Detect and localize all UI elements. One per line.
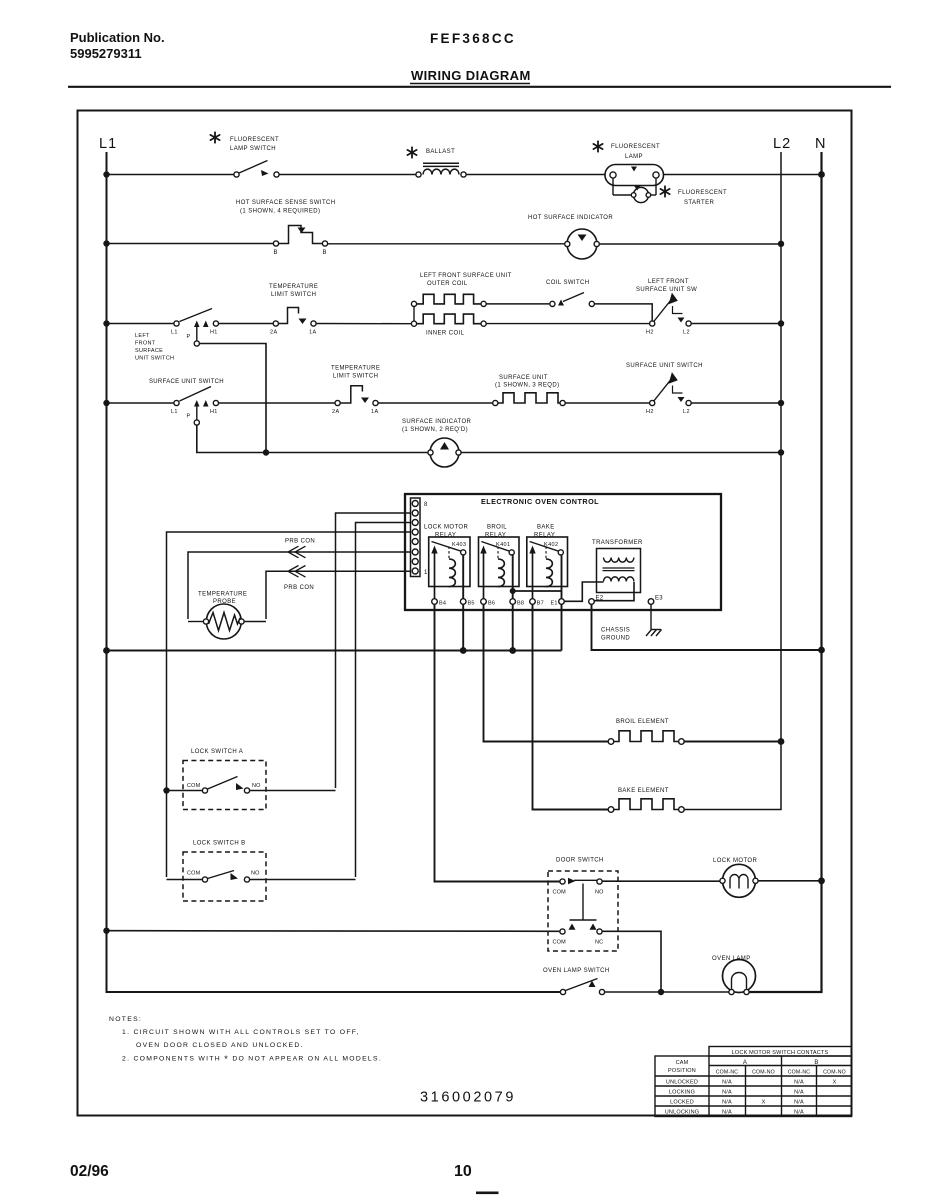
wire lamp switch to oven lamp xyxy=(605,991,729,993)
junction L2 row3 xyxy=(778,320,784,326)
svg-text:LOCKING: LOCKING xyxy=(669,1090,695,1096)
wire row4 H1 to temp limit xyxy=(219,402,336,404)
inner coil element xyxy=(417,314,487,326)
svg-text:B7: B7 xyxy=(537,601,544,607)
svg-text:(1 SHOWN, 4 REQUIRED): (1 SHOWN, 4 REQUIRED) xyxy=(240,209,320,215)
svg-text:B: B xyxy=(323,250,327,256)
svg-text:K403: K403 xyxy=(452,542,466,548)
svg-text:TEMPERATURE: TEMPERATURE xyxy=(331,366,380,372)
wire row3 to L2 xyxy=(691,323,781,325)
wire row1 L1 to lamp switch xyxy=(107,174,235,176)
svg-text:N/A: N/A xyxy=(722,1090,732,1096)
fluorescent lamp label xyxy=(0,0,1,1)
svg-text:SURFACE UNIT: SURFACE UNIT xyxy=(499,375,548,381)
svg-text:FEF368CC: FEF368CC xyxy=(430,31,516,46)
hot surface sense switch xyxy=(273,226,327,247)
wire door NO to lock motor xyxy=(602,880,720,882)
surface indicator labels xyxy=(402,419,472,433)
coil switch xyxy=(550,293,595,307)
door switch pole 2 xyxy=(560,924,602,935)
svg-text:L2: L2 xyxy=(683,409,690,415)
connector strip P1 xyxy=(411,498,421,577)
node L1 label xyxy=(99,136,117,152)
svg-text:N/A: N/A xyxy=(794,1090,804,1096)
svg-text:2A: 2A xyxy=(270,330,278,336)
wire B4 down to door switch xyxy=(435,604,560,881)
svg-text:RELAY: RELAY xyxy=(534,533,555,539)
svg-text:BROIL ELEMENT: BROIL ELEMENT xyxy=(616,719,669,725)
svg-text:K402: K402 xyxy=(544,542,558,548)
PRB CON chevrons upper xyxy=(288,546,306,558)
door switch terminal labels xyxy=(553,890,605,946)
svg-text:LEFT: LEFT xyxy=(135,333,150,339)
svg-text:PRB CON: PRB CON xyxy=(285,539,315,545)
svg-text:FRONT: FRONT xyxy=(135,341,156,347)
svg-text:POSITION: POSITION xyxy=(668,1068,696,1074)
svg-text:L1: L1 xyxy=(99,136,117,152)
wire lamp switch to ballast xyxy=(279,174,416,176)
wire B8 to E1 link xyxy=(513,590,562,592)
svg-text:ELECTRONIC OVEN CONTROL: ELECTRONIC OVEN CONTROL xyxy=(481,497,599,506)
broil element xyxy=(608,731,684,745)
fluorescent lamp xyxy=(605,165,664,186)
temperature limit switch row3 labels xyxy=(269,284,318,336)
lock switch A xyxy=(167,777,336,794)
svg-text:OVEN LAMP SWITCH: OVEN LAMP SWITCH xyxy=(543,968,610,974)
svg-text:10: 10 xyxy=(454,1163,472,1180)
wire N bus vertical xyxy=(749,152,821,992)
wire row2 L1 to sense switch xyxy=(107,243,274,245)
svg-text:NO: NO xyxy=(595,890,604,896)
wire B8 down to main line xyxy=(512,604,514,650)
coil labels xyxy=(420,273,512,337)
svg-text:HOT SURFACE SENSE SWITCH: HOT SURFACE SENSE SWITCH xyxy=(236,200,336,206)
wire L2 bus vertical xyxy=(780,152,782,742)
wire E1 to transformer primary xyxy=(564,582,603,601)
junction L1 row2 xyxy=(103,240,109,246)
wire row4 to L2 xyxy=(691,402,781,404)
chassis ground E3 xyxy=(646,604,662,636)
surface unit switch (right) labels xyxy=(626,363,703,415)
node L2 label xyxy=(773,136,791,152)
svg-text:02/96: 02/96 xyxy=(70,1163,109,1180)
svg-text:UNLOCKED: UNLOCKED xyxy=(666,1080,698,1086)
wire E2 to transformer primary right xyxy=(594,582,634,601)
svg-text:TRANSFORMER: TRANSFORMER xyxy=(592,540,643,546)
svg-text:COM: COM xyxy=(553,890,567,896)
wire lamp to N xyxy=(664,174,822,176)
svg-text:2A: 2A xyxy=(332,409,340,415)
wire L2 to bake element xyxy=(684,742,781,810)
svg-text:2. COMPONENTS WITH * DO NOT AP: 2. COMPONENTS WITH * DO NOT APPEAR ON AL… xyxy=(122,1054,382,1065)
temperature limit switch row4 labels xyxy=(331,366,380,416)
fluorescent lamp switch xyxy=(234,161,279,178)
svg-text:FLUORESCENT: FLUORESCENT xyxy=(611,144,660,150)
lock switch B label xyxy=(193,841,246,847)
junction N row1 xyxy=(818,171,825,178)
wire indicator to L2 xyxy=(599,243,781,245)
svg-text:BROIL: BROIL xyxy=(487,525,507,531)
svg-text:OVEN DOOR CLOSED AND UNLOCKED.: OVEN DOOR CLOSED AND UNLOCKED. xyxy=(136,1042,304,1049)
surface unit switch labels xyxy=(149,379,224,420)
bottom registration mark xyxy=(476,1192,499,1195)
wire B7 down to bake element xyxy=(533,604,609,809)
junction lock A COM xyxy=(163,787,169,793)
broil relay labels xyxy=(485,525,510,549)
electronic oven control title xyxy=(481,497,599,506)
temperature probe labels xyxy=(198,592,247,606)
wire surface unit to H2 xyxy=(565,402,649,404)
svg-text:E3: E3 xyxy=(655,596,663,602)
svg-text:A: A xyxy=(743,1060,747,1066)
svg-text:B: B xyxy=(814,1060,818,1066)
svg-text:L2: L2 xyxy=(683,330,690,336)
wire sense switch to indicator xyxy=(328,243,565,245)
svg-text:N/A: N/A xyxy=(722,1100,732,1106)
wire ballast to fluorescent lamp xyxy=(466,174,605,176)
svg-text:LOCKED: LOCKED xyxy=(670,1100,694,1106)
svg-text:COM: COM xyxy=(553,940,567,946)
svg-text:LAMP SWITCH: LAMP SWITCH xyxy=(230,146,276,152)
svg-text:N/A: N/A xyxy=(794,1110,804,1116)
junction L1 main line xyxy=(103,647,110,654)
bake element label xyxy=(618,788,669,794)
svg-text:INNER COIL: INNER COIL xyxy=(426,331,465,337)
svg-text:STARTER: STARTER xyxy=(684,200,715,206)
svg-text:1. CIRCUIT SHOWN WITH ALL CONT: 1. CIRCUIT SHOWN WITH ALL CONTROLS SET T… xyxy=(122,1029,360,1036)
surface unit element xyxy=(493,393,566,406)
oven lamp switch xyxy=(560,979,604,995)
svg-text:LOCK SWITCH A: LOCK SWITCH A xyxy=(191,749,243,755)
temperature probe xyxy=(188,604,266,639)
lock motor label xyxy=(713,858,757,864)
lock switch B xyxy=(167,871,356,883)
door switch box xyxy=(548,871,618,951)
surface unit switch (right) xyxy=(650,372,692,406)
wire row3 H1 to temp limit xyxy=(219,323,274,325)
lock switch B terminal labels xyxy=(187,871,260,877)
svg-text:5995279311: 5995279311 xyxy=(70,46,142,61)
coil branch node xyxy=(411,301,416,326)
temperature limit switch row4 xyxy=(335,386,378,406)
svg-text:BAKE ELEMENT: BAKE ELEMENT xyxy=(618,788,669,794)
svg-text:N/A: N/A xyxy=(794,1080,804,1086)
svg-text:COM: COM xyxy=(187,783,201,789)
svg-text:X: X xyxy=(762,1100,766,1106)
surface unit switch (left) xyxy=(174,387,219,426)
door switch pole 1 xyxy=(560,878,602,885)
svg-text:GROUND: GROUND xyxy=(601,636,630,642)
junction L2 row4 xyxy=(778,400,784,406)
notes xyxy=(109,1016,382,1065)
svg-text:B5: B5 xyxy=(468,601,475,607)
oven lamp xyxy=(723,960,756,995)
svg-text:B: B xyxy=(274,250,278,256)
outer frame xyxy=(78,111,852,1116)
EOC terminals row xyxy=(432,599,654,605)
svg-text:COM: COM xyxy=(187,871,201,877)
svg-text:COIL SWITCH: COIL SWITCH xyxy=(546,280,590,286)
svg-text:COM-NC: COM-NC xyxy=(788,1070,811,1076)
svg-text:B8: B8 xyxy=(517,601,524,607)
svg-text:WIRING DIAGRAM: WIRING DIAGRAM xyxy=(411,68,531,83)
lock motor xyxy=(720,864,758,897)
junction L1 row1 xyxy=(103,171,109,177)
svg-text:P: P xyxy=(187,414,191,420)
svg-text:(1 SHOWN, 3 REQD): (1 SHOWN, 3 REQD) xyxy=(495,383,559,389)
fluorescent starter xyxy=(613,178,656,202)
wire coil switch to H2 drop xyxy=(594,304,652,321)
junction L1 row3 xyxy=(103,320,109,326)
junction lamp row xyxy=(658,989,664,995)
PRB CON label upper xyxy=(285,539,315,545)
door switch label xyxy=(556,858,604,864)
svg-text:DOOR SWITCH: DOOR SWITCH xyxy=(556,858,604,864)
wire lock motor to N xyxy=(758,880,821,882)
wire row3 1A to coil branch xyxy=(316,323,411,325)
transformer T1 xyxy=(597,549,641,593)
hot surface indicator label xyxy=(528,215,613,221)
svg-text:SURFACE UNIT SWITCH: SURFACE UNIT SWITCH xyxy=(626,363,703,369)
svg-text:(1 SHOWN, 2 REQ'D): (1 SHOWN, 2 REQ'D) xyxy=(402,427,468,433)
lock motor relay labels xyxy=(424,525,468,549)
PRB CON chevrons lower xyxy=(288,566,306,578)
electronic oven control box xyxy=(405,494,721,610)
wire row3 P to drop xyxy=(199,344,266,451)
lock motor relay K403 xyxy=(429,537,470,602)
svg-text:B6: B6 xyxy=(488,601,495,607)
svg-text:TEMPERATURE: TEMPERATURE xyxy=(269,284,318,290)
svg-text:UNLOCKING: UNLOCKING xyxy=(665,1110,700,1116)
svg-text:BALLAST: BALLAST xyxy=(426,149,455,155)
svg-text:OUTER COIL: OUTER COIL xyxy=(427,281,468,287)
lock switch A terminal labels xyxy=(187,783,261,789)
svg-text:K401: K401 xyxy=(496,542,510,548)
title underline xyxy=(410,83,530,85)
fluorescent starter label xyxy=(0,0,1,1)
svg-text:FLUORESCENT: FLUORESCENT xyxy=(230,137,279,143)
junction B8 link xyxy=(510,588,516,594)
PRB CON label lower xyxy=(284,585,314,591)
svg-text:H1: H1 xyxy=(210,409,218,415)
wire inner coil to H2 xyxy=(486,323,649,325)
wire B6 down to broil element xyxy=(484,604,609,741)
oven lamp switch label xyxy=(543,968,610,974)
wire L1 bus vertical xyxy=(107,152,561,992)
svg-text:E1: E1 xyxy=(551,601,558,607)
broil element label xyxy=(616,719,669,725)
chassis ground label xyxy=(601,628,630,642)
wire pin3 to probe left (PRB CON) xyxy=(188,552,411,619)
svg-text:H1: H1 xyxy=(210,330,218,336)
svg-text:H2: H2 xyxy=(646,330,654,336)
svg-text:SURFACE: SURFACE xyxy=(135,348,163,354)
svg-text:RELAY: RELAY xyxy=(435,533,456,539)
junction L2 row2 xyxy=(778,241,784,247)
svg-text:N/A: N/A xyxy=(722,1110,732,1116)
junction L2 broil xyxy=(778,738,785,745)
left front surface unit switch xyxy=(174,309,219,347)
svg-text:LOCK MOTOR SWITCH CONTACTS: LOCK MOTOR SWITCH CONTACTS xyxy=(732,1050,829,1056)
oven lamp label xyxy=(712,956,751,962)
svg-text:SURFACE INDICATOR: SURFACE INDICATOR xyxy=(402,419,472,425)
outer coil element xyxy=(417,294,487,306)
transformer label xyxy=(592,540,643,546)
svg-text:LEFT FRONT SURFACE UNIT: LEFT FRONT SURFACE UNIT xyxy=(420,273,512,279)
svg-text:N/A: N/A xyxy=(722,1080,732,1086)
EOC terminal labels xyxy=(439,596,663,607)
svg-text:NC: NC xyxy=(595,940,603,946)
wire pin1 to probe right (PRB CON) xyxy=(266,571,411,619)
svg-text:UNIT SWITCH: UNIT SWITCH xyxy=(135,356,174,362)
wire outer coil to coil switch xyxy=(486,303,550,305)
svg-text:LIMIT SWITCH: LIMIT SWITCH xyxy=(271,292,316,298)
svg-text:N/A: N/A xyxy=(794,1100,804,1106)
junction L1 row4 xyxy=(103,400,109,406)
door switch link xyxy=(570,884,597,921)
main L1 line xyxy=(107,649,562,651)
ballast L1 (coil) xyxy=(416,163,466,177)
svg-text:CHASSIS: CHASSIS xyxy=(601,628,630,634)
wire L1 to door COM pole2 xyxy=(107,930,560,933)
wire E1 down to main line xyxy=(561,604,563,650)
node N label xyxy=(815,136,825,152)
left front surface unit sw (right) xyxy=(650,293,692,327)
svg-text:NO: NO xyxy=(252,783,261,789)
svg-text:PROBE: PROBE xyxy=(213,599,236,605)
bake relay K402 xyxy=(527,537,568,602)
svg-text:SURFACE UNIT SWITCH: SURFACE UNIT SWITCH xyxy=(149,379,224,385)
svg-text:316002079: 316002079 xyxy=(420,1090,516,1106)
svg-text:1: 1 xyxy=(424,570,428,576)
svg-text:P: P xyxy=(187,334,191,340)
svg-text:NOTES:: NOTES: xyxy=(109,1016,142,1023)
surface unit element labels xyxy=(495,375,559,389)
connector pin labels xyxy=(424,502,428,576)
wire door NC down to lamp row xyxy=(602,931,661,992)
svg-text:RELAY: RELAY xyxy=(485,533,506,539)
table text xyxy=(665,1050,846,1116)
junction L2 indicator row xyxy=(778,449,784,455)
svg-text:Publication No.: Publication No. xyxy=(70,30,165,45)
svg-text:CAM: CAM xyxy=(676,1060,689,1066)
wire pin6 to lock switch B NO xyxy=(356,523,411,878)
svg-text:L2: L2 xyxy=(773,136,791,152)
wire pin7 to lock switch A NO xyxy=(336,513,411,788)
wire B5 down to main line xyxy=(462,604,464,650)
temperature limit switch row3 xyxy=(273,308,316,327)
svg-text:L1: L1 xyxy=(171,409,178,415)
part number xyxy=(420,1090,516,1106)
svg-text:PRB CON: PRB CON xyxy=(284,585,314,591)
svg-text:H2: H2 xyxy=(646,409,654,415)
junction indicator row xyxy=(263,449,269,455)
sense switch labels xyxy=(236,200,336,256)
svg-text:COM-NC: COM-NC xyxy=(716,1070,739,1076)
svg-text:N: N xyxy=(815,136,825,152)
svg-text:LIMIT SWITCH: LIMIT SWITCH xyxy=(333,374,378,380)
wire E2 down to N line xyxy=(592,604,822,650)
svg-text:1A: 1A xyxy=(371,409,379,415)
svg-text:LOCK MOTOR: LOCK MOTOR xyxy=(424,525,468,531)
svg-text:COM-NO: COM-NO xyxy=(823,1070,846,1076)
wire row4 1A to surface unit xyxy=(378,402,493,404)
junction B5 main line xyxy=(460,647,467,654)
wire indicator row to L2 xyxy=(461,452,781,454)
junction L1 door row xyxy=(103,928,109,934)
wire pin5 to lock switches COM xyxy=(167,532,411,877)
wire row3 L1 to unit switch xyxy=(107,323,175,325)
wire row4 L1 to unit switch xyxy=(107,402,175,404)
svg-text:COM-NO: COM-NO xyxy=(752,1070,775,1076)
svg-text:L1: L1 xyxy=(171,330,178,336)
header rule xyxy=(68,86,891,88)
svg-text:LAMP: LAMP xyxy=(625,154,643,160)
surface indicator xyxy=(428,438,461,467)
bake element xyxy=(608,799,684,813)
svg-text:TEMPERATURE: TEMPERATURE xyxy=(198,592,247,598)
wire row4 P drop to indicator row xyxy=(197,425,428,452)
junction B8 main line xyxy=(509,647,516,654)
junction N main line xyxy=(818,647,825,654)
lock motor switch contacts table xyxy=(655,1047,852,1117)
fluorescent lamp switch label xyxy=(0,0,1,1)
junction N lock motor xyxy=(818,877,825,884)
svg-text:LEFT FRONT: LEFT FRONT xyxy=(648,279,689,285)
lock switch A label xyxy=(191,749,243,755)
ballast label xyxy=(0,0,1,1)
bake relay labels xyxy=(534,525,558,549)
wire broil element to L2 xyxy=(684,741,781,743)
lock switch B box xyxy=(183,852,266,901)
footer xyxy=(70,1163,472,1180)
svg-text:B4: B4 xyxy=(439,601,446,607)
broil relay K401 xyxy=(479,537,520,602)
left front surface unit switch labels xyxy=(135,330,218,362)
coil switch label xyxy=(546,280,590,286)
svg-text:LOCK MOTOR: LOCK MOTOR xyxy=(713,858,757,864)
svg-text:X: X xyxy=(833,1080,837,1086)
svg-text:NO: NO xyxy=(251,871,260,877)
svg-text:1A: 1A xyxy=(309,330,317,336)
svg-text:8: 8 xyxy=(424,502,428,508)
svg-text:FLUORESCENT: FLUORESCENT xyxy=(678,190,727,196)
svg-text:HOT SURFACE INDICATOR: HOT SURFACE INDICATOR xyxy=(528,215,613,221)
lock switch A box xyxy=(183,761,266,810)
left front surface unit sw labels xyxy=(636,279,697,336)
svg-text:SURFACE UNIT SW: SURFACE UNIT SW xyxy=(636,287,697,293)
hot surface indicator xyxy=(565,229,600,259)
svg-text:OVEN LAMP: OVEN LAMP xyxy=(712,956,751,962)
publication number text xyxy=(70,30,531,83)
svg-text:BAKE: BAKE xyxy=(537,525,555,531)
svg-text:LOCK SWITCH B: LOCK SWITCH B xyxy=(193,841,246,847)
